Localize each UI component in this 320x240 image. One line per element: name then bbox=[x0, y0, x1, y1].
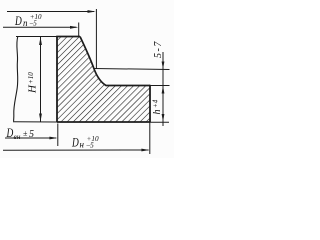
Dвн extension line bbox=[57, 124, 59, 147]
svg-text:H: H bbox=[27, 84, 39, 94]
H dimension line bbox=[40, 37, 42, 123]
shared arrow at flange top (pointing up) bbox=[162, 86, 165, 94]
bottom extension line left (for H dim) bbox=[13, 121, 57, 123]
svg-text:5: 5 bbox=[29, 129, 34, 140]
h bottom arrow (pointing down) bbox=[162, 114, 165, 122]
H top arrow bbox=[39, 37, 42, 45]
right vertical dimension line (5-7 and h chain) bbox=[162, 52, 164, 126]
arrow of Dп dimension bbox=[70, 26, 78, 29]
part outline: flange right edge bbox=[149, 85, 151, 122]
part outline: inner wall bbox=[56, 37, 58, 123]
svg-text:+4: +4 bbox=[152, 99, 160, 108]
svg-text:D: D bbox=[71, 136, 79, 150]
5-7 upper arrow (outside, pointing down) bbox=[162, 62, 165, 70]
extension line at x=78.6 for Dп bbox=[78, 23, 80, 37]
dimension line Dп (y=27.3) bbox=[3, 26, 77, 28]
svg-text:н: н bbox=[80, 140, 85, 150]
svg-text:±: ± bbox=[23, 129, 28, 138]
svg-text:D: D bbox=[14, 14, 22, 28]
label 5-7 (rotated) bbox=[153, 40, 164, 58]
shoulder extension line (5-7 top) bbox=[94, 69, 170, 70]
extension line at x=96.5 for D1 bbox=[95, 9, 97, 69]
part cross-section hatched body bbox=[57, 37, 150, 123]
arrow of D1 dimension bbox=[88, 10, 96, 13]
part outline: bottom edge bbox=[57, 121, 150, 123]
svg-text:п: п bbox=[23, 18, 28, 28]
svg-text:D: D bbox=[6, 127, 14, 141]
bottom extension line (right, for h dim) bbox=[150, 121, 169, 123]
wavy break line bbox=[14, 37, 18, 122]
svg-text:+10: +10 bbox=[27, 72, 35, 84]
Dн extension line bbox=[149, 123, 151, 155]
label h+4 (rotated) bbox=[152, 99, 164, 114]
label H+10 (rotated) bbox=[27, 72, 39, 94]
svg-text:–5: –5 bbox=[86, 142, 95, 150]
svg-text:5-7: 5-7 bbox=[153, 40, 164, 58]
flange top extension line (right) bbox=[150, 85, 170, 87]
part outline: slant and curve to flange top bbox=[80, 37, 150, 86]
top extension line of part (left, for H dim) bbox=[16, 36, 57, 38]
Dвн arrow bbox=[49, 137, 57, 140]
svg-text:h: h bbox=[152, 110, 163, 115]
part outline: top edge bbox=[56, 36, 80, 38]
Dн dimension line bbox=[3, 149, 149, 151]
svg-text:–5: –5 bbox=[29, 20, 38, 28]
svg-text:вн: вн bbox=[14, 132, 21, 141]
Dн arrow bbox=[141, 149, 149, 152]
H bottom arrow bbox=[39, 114, 42, 122]
dimension line D1 (top, y=11.5) bbox=[7, 11, 94, 13]
Dвн dimension line bbox=[5, 137, 56, 139]
